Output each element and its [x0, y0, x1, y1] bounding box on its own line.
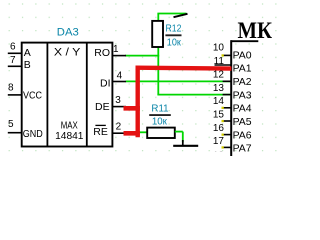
svg-text:RO: RO	[94, 47, 110, 59]
MK pin name PA5	[233, 116, 252, 128]
pin 3 stub (DE)	[112, 106, 126, 108]
pin number 6	[10, 41, 16, 52]
svg-text:R11: R11	[151, 103, 168, 115]
svg-text:17: 17	[213, 136, 225, 147]
MK pin 14 stub	[222, 107, 232, 109]
svg-text:R12: R12	[166, 23, 182, 35]
MK pin 11 stub	[215, 64, 232, 66]
MK pin number 15	[213, 109, 225, 120]
MK pin 13 stub	[223, 94, 232, 96]
MK pin number 13	[213, 83, 225, 94]
MK pin number 12	[213, 70, 225, 81]
pin 7 stub (B)	[8, 65, 22, 67]
MK pin 10 stub	[222, 54, 232, 56]
wire: RE junction to R11 left lead	[138, 131, 148, 133]
wire: R12 top lead to power rail	[157, 14, 186, 22]
svg-text:15: 15	[213, 109, 225, 120]
pin 2 stub (RE)	[112, 132, 126, 134]
MK title	[238, 18, 273, 43]
pin name VCC	[23, 89, 42, 101]
ground symbol	[173, 140, 198, 146]
MK pin 16 stub	[222, 134, 232, 136]
IC DA3 reference label	[57, 26, 79, 38]
function label X / Y	[54, 47, 81, 59]
svg-text:16: 16	[213, 123, 225, 134]
svg-text:10: 10	[213, 43, 225, 54]
svg-text:10к: 10к	[167, 36, 181, 48]
svg-text:PA5: PA5	[233, 116, 252, 128]
MK pin 12 stub	[223, 80, 232, 82]
svg-text:8: 8	[8, 82, 14, 93]
svg-text:7: 7	[10, 55, 16, 66]
pin number 7	[10, 55, 16, 66]
svg-text:PA1: PA1	[233, 63, 252, 75]
svg-text:5: 5	[8, 119, 14, 130]
pin name DI	[100, 77, 111, 89]
wire: DI pin4 to MK pin12 (PA2)	[126, 80, 232, 82]
wire: red stub to DE pin3	[124, 106, 140, 111]
MK pin name PA0	[233, 49, 252, 61]
MK pin name PA1	[233, 63, 252, 75]
pin name GND	[23, 128, 43, 140]
power rail arrow dash	[174, 14, 188, 17]
svg-text:4: 4	[117, 71, 123, 82]
pin name RO	[94, 47, 110, 59]
svg-text:PA6: PA6	[233, 129, 252, 141]
svg-text:PA0: PA0	[233, 49, 252, 61]
MK pin name PA3	[233, 89, 252, 101]
svg-text:PA4: PA4	[233, 103, 252, 115]
wire: RO pin1 to R12 net vertical	[125, 55, 159, 57]
svg-text:B: B	[24, 59, 31, 71]
MK pin number 10	[213, 43, 225, 54]
svg-text:DA3: DA3	[57, 26, 79, 38]
svg-text:VCC: VCC	[23, 89, 42, 101]
svg-text:10к: 10к	[152, 115, 167, 127]
pin 5 stub (GND)	[8, 132, 22, 134]
MK pin number 14	[213, 96, 225, 107]
svg-text:12: 12	[213, 70, 225, 81]
MK pin name PA7	[233, 143, 252, 155]
svg-text:6: 6	[10, 41, 16, 52]
MK pin number 11	[214, 56, 225, 67]
svg-text:3: 3	[115, 95, 121, 106]
wire: R12 bottom lead down, then right to MK pin13 (PA3)	[157, 47, 231, 95]
resistor R11 label	[149, 103, 171, 128]
svg-text:2: 2	[116, 121, 122, 132]
svg-text:A: A	[24, 47, 31, 59]
part number MAX 14841	[55, 121, 84, 142]
pin 8 stub (VCC)	[8, 94, 22, 96]
pin number 4	[117, 71, 123, 82]
svg-text:GND: GND	[23, 128, 43, 140]
svg-text:PA2: PA2	[233, 76, 252, 88]
svg-text:PA3: PA3	[233, 89, 252, 101]
svg-text:1: 1	[113, 44, 119, 55]
pin number 2	[116, 121, 122, 132]
pin name DE	[95, 101, 110, 113]
MK pin name PA6	[233, 129, 252, 141]
pin 6 stub (A)	[8, 52, 22, 54]
wire: red stub to RE pin2	[124, 131, 140, 136]
svg-text:13: 13	[213, 83, 225, 94]
svg-text:МК: МК	[238, 18, 273, 43]
svg-text:14: 14	[213, 96, 225, 107]
resistor R12 label	[165, 23, 181, 49]
MK pin name PA2	[233, 76, 252, 88]
MK pin number 16	[213, 123, 225, 134]
wire: red vertical run	[135, 66, 139, 138]
MK pin 17 stub	[222, 146, 232, 148]
pin number 1	[113, 44, 119, 55]
svg-text:X / Y: X / Y	[54, 47, 81, 59]
resistor R12 body	[152, 21, 163, 47]
pin 4 stub (DI)	[112, 81, 126, 83]
pin number 8	[8, 82, 14, 93]
svg-text:14841: 14841	[55, 131, 84, 142]
MK pin number 17	[213, 136, 225, 147]
pin number 5	[8, 119, 14, 130]
svg-text:DI: DI	[100, 77, 111, 89]
pin name B	[24, 59, 31, 71]
MK connector top edge	[231, 40, 259, 42]
svg-text:DE: DE	[95, 101, 110, 113]
MK pin number 18 (clipped)	[212, 150, 230, 161]
wire: R11 right lead to ground	[175, 132, 183, 143]
resistor R11 body	[147, 128, 175, 138]
pin name A	[24, 47, 31, 59]
svg-text:RE: RE	[93, 126, 108, 138]
MK pin name PA4	[233, 103, 252, 115]
MK pin 15 stub	[222, 120, 232, 122]
svg-text:11: 11	[214, 56, 225, 67]
pin 1 stub (RO)	[112, 55, 126, 57]
wire: thick red net DE/RE to MK pin11 (PA1), horizontal top run	[136, 65, 232, 70]
MK connector left edge	[230, 40, 232, 156]
pin name RE with overline	[93, 125, 108, 138]
svg-text:PA7: PA7	[233, 143, 252, 155]
pin number 3	[115, 95, 121, 106]
IC DA3 body	[22, 43, 113, 147]
